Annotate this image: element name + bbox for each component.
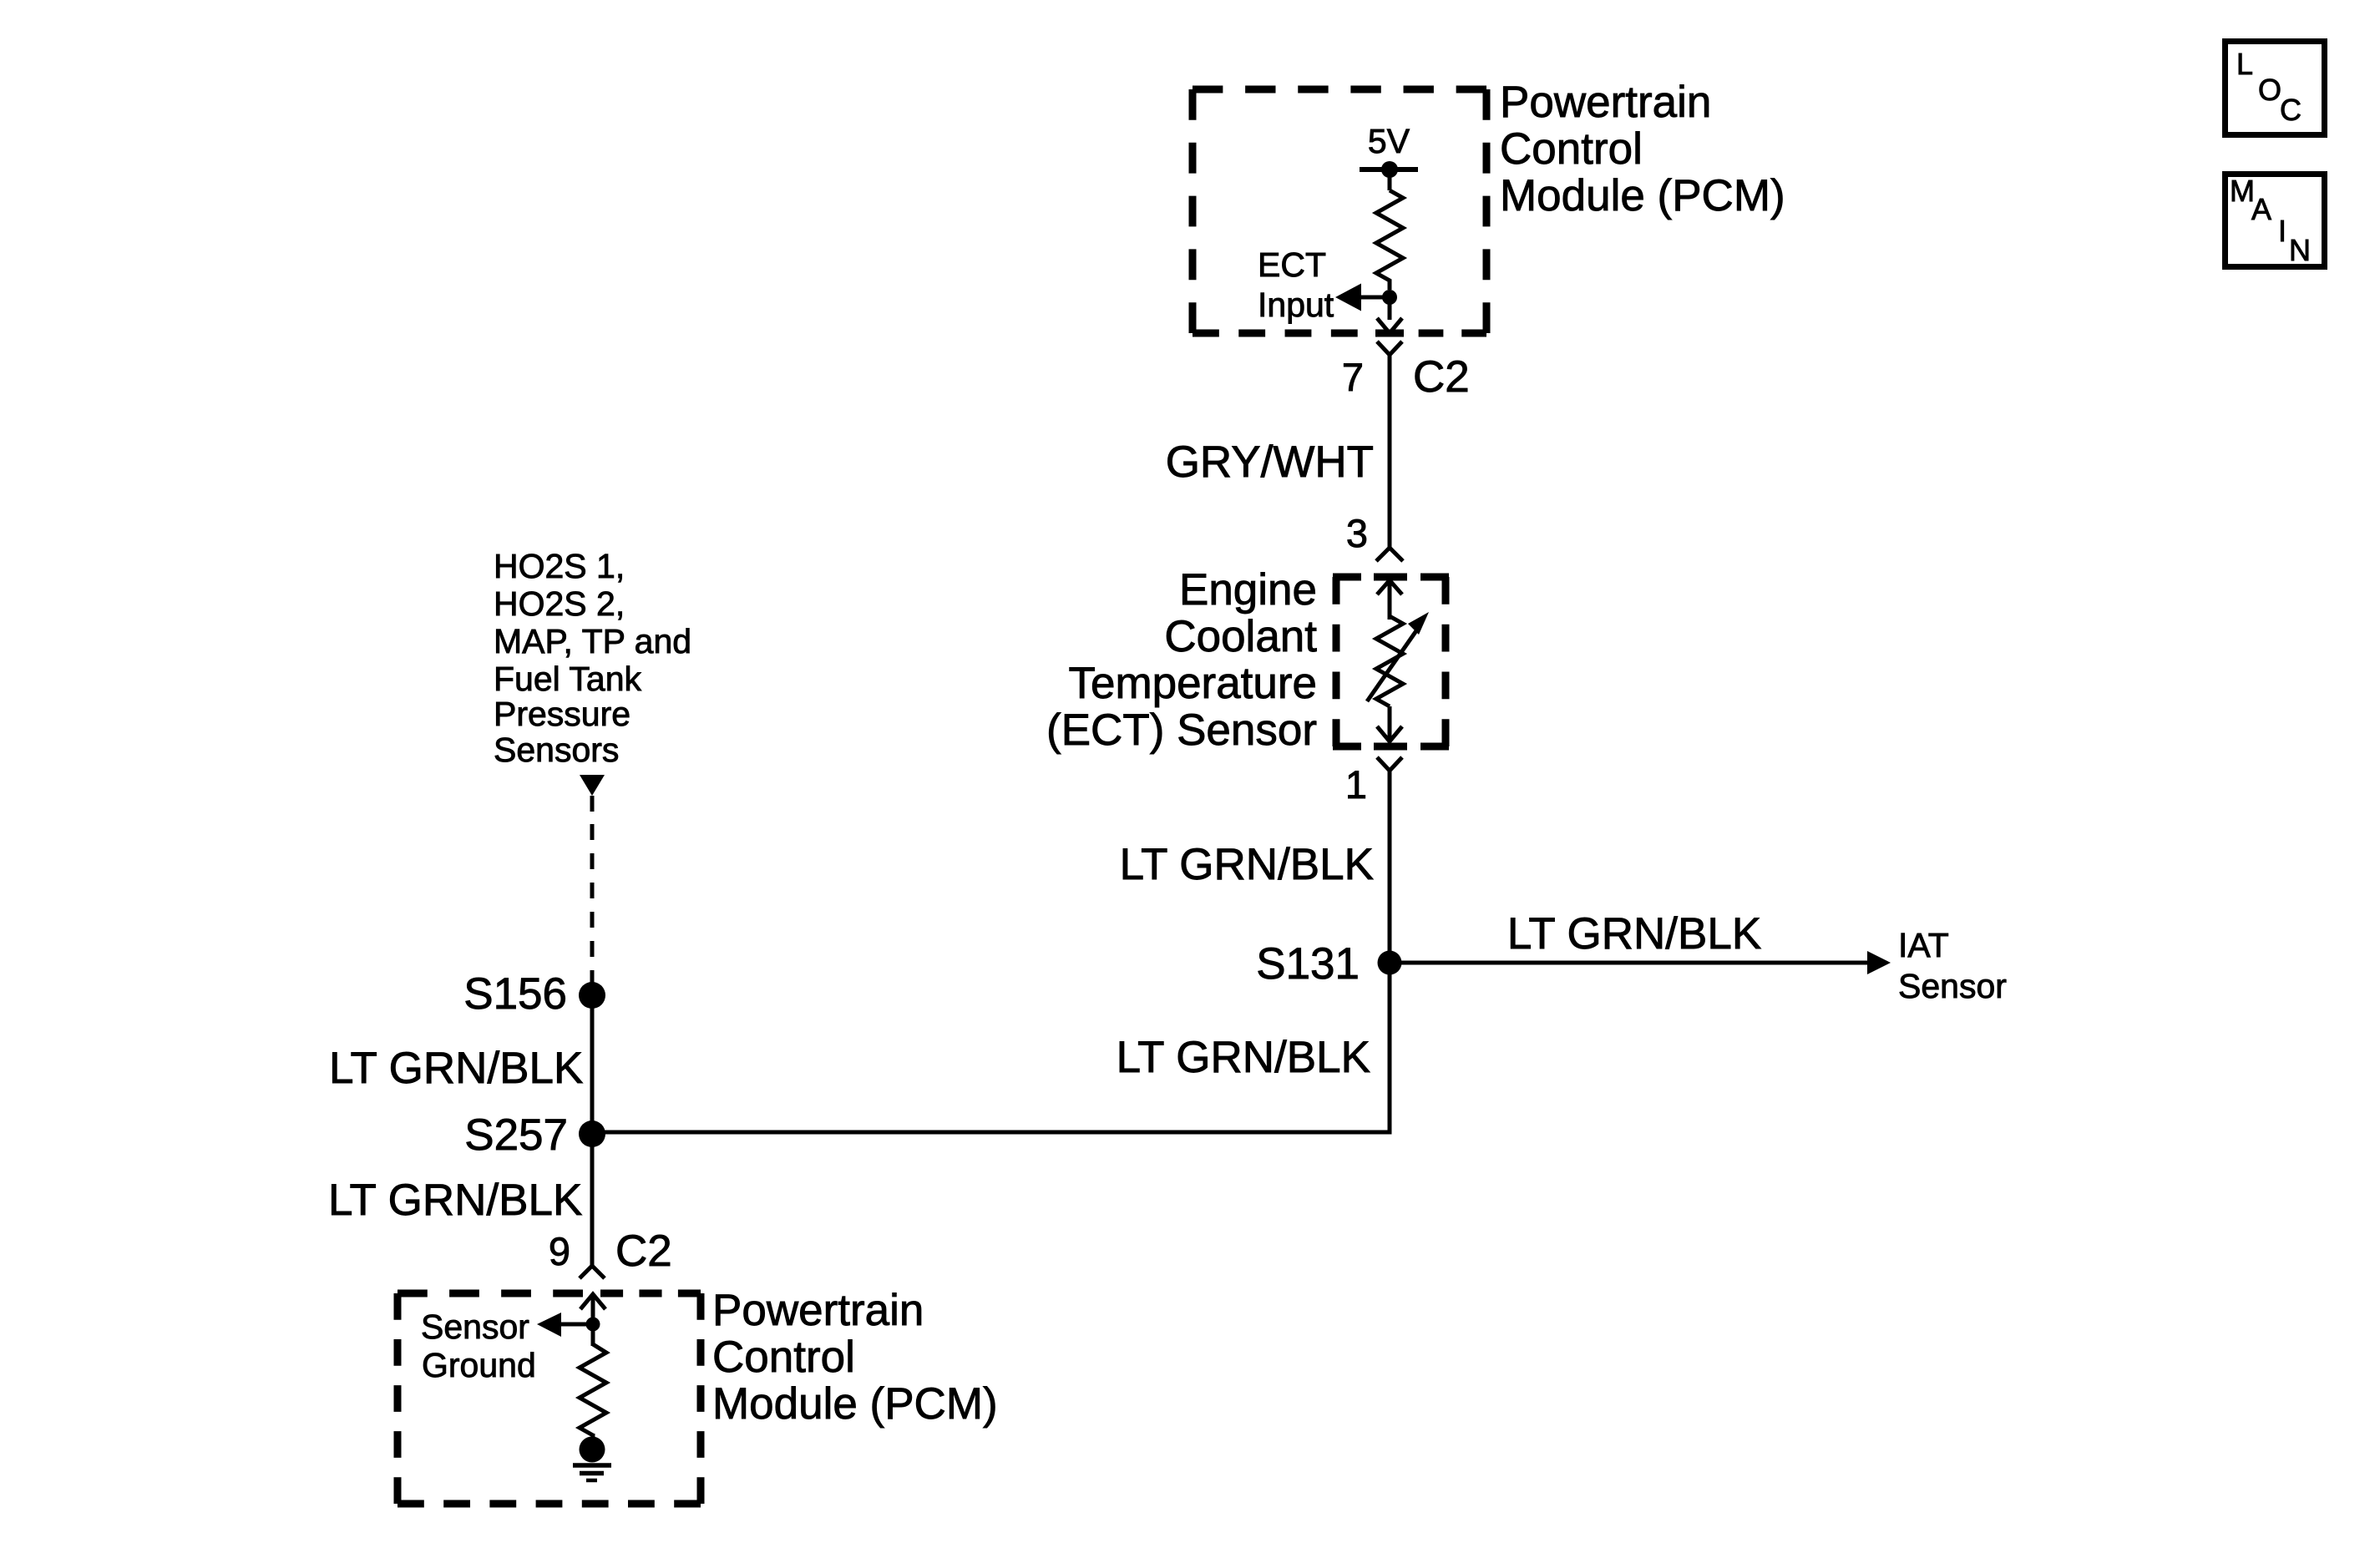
svg-text:5V: 5V bbox=[1368, 122, 1410, 160]
svg-text:Sensors: Sensors bbox=[494, 731, 619, 769]
PCM bottom box: top border right part bbox=[600, 1290, 701, 1297]
ECT sensor box (dashed outline) bbox=[1333, 577, 1449, 746]
wire S257 to S131 horizontal bbox=[590, 1131, 1392, 1135]
ECT box: bottom border dash 1 bbox=[1333, 743, 1361, 751]
resistor (PCM internal pull-up) bbox=[1376, 190, 1403, 290]
PCM top box: top border bbox=[1193, 86, 1486, 94]
svg-text:HO2S 1,: HO2S 1, bbox=[494, 547, 625, 585]
dashed wire to other sensors bbox=[590, 824, 595, 984]
ECT box: right border bbox=[1442, 577, 1450, 746]
svg-text:Control: Control bbox=[1500, 124, 1643, 174]
svg-text:S156: S156 bbox=[463, 969, 567, 1019]
svg-text:Pressure: Pressure bbox=[494, 695, 630, 733]
svg-text:Coolant: Coolant bbox=[1164, 612, 1317, 661]
svg-text:S257: S257 bbox=[464, 1110, 568, 1160]
svg-text:Module (PCM): Module (PCM) bbox=[712, 1379, 998, 1429]
junction dot sensor ground node bbox=[586, 1318, 600, 1332]
svg-text:HO2S 2,: HO2S 2, bbox=[494, 584, 625, 623]
wire LT GRN/BLK upper bbox=[1388, 771, 1392, 963]
PCM bottom box: top border left part bbox=[398, 1290, 583, 1297]
svg-text:N: N bbox=[2289, 233, 2311, 267]
connector C2 pin 9 symbol bbox=[580, 1266, 605, 1278]
svg-text:LT GRN/BLK: LT GRN/BLK bbox=[1507, 909, 1761, 959]
ground symbol bbox=[573, 1437, 611, 1481]
svg-text:Sensor: Sensor bbox=[421, 1308, 529, 1346]
wire to IAT sensor bbox=[1390, 961, 1869, 965]
junction dot at 5V node bbox=[1381, 161, 1398, 178]
connector chevron below ECT sensor (pin 1) bbox=[1377, 757, 1402, 771]
ECT box: top border dash 3 bbox=[1420, 574, 1449, 581]
svg-text:9: 9 bbox=[549, 1229, 570, 1273]
wire resistor to pin 7 bbox=[1388, 294, 1392, 320]
junction dot at ECT input node bbox=[1382, 290, 1397, 305]
svg-text:Powertrain: Powertrain bbox=[712, 1286, 924, 1335]
arrow down at PCM box exit bbox=[1377, 318, 1402, 333]
wire ECT inner bottom bbox=[1388, 706, 1392, 741]
ECT box: bottom border dash 3 bbox=[1420, 743, 1449, 751]
ECT Input arrow (points left) bbox=[1335, 284, 1361, 311]
PCM top box: bottom border right part bbox=[1375, 330, 1486, 337]
svg-text:A: A bbox=[2251, 192, 2271, 226]
wire ECT inner top bbox=[1388, 580, 1392, 620]
svg-text:GRY/WHT: GRY/WHT bbox=[1166, 438, 1374, 487]
svg-text:LT GRN/BLK: LT GRN/BLK bbox=[1120, 840, 1374, 889]
thermistor zigzag (ECT sensing element) bbox=[1376, 616, 1403, 706]
svg-text:IAT: IAT bbox=[1898, 926, 1949, 964]
connector chevron above ECT sensor bbox=[1376, 548, 1403, 561]
arrow up at PCM box entry bbox=[580, 1294, 605, 1309]
ECT box: top border dash 1 bbox=[1333, 574, 1361, 581]
svg-text:3: 3 bbox=[1346, 511, 1368, 555]
PCM bottom box: right border bbox=[697, 1293, 705, 1504]
arrow down at ECT box exit bbox=[1377, 726, 1402, 741]
svg-text:Module (PCM): Module (PCM) bbox=[1500, 171, 1785, 220]
svg-text:C2: C2 bbox=[615, 1227, 672, 1276]
svg-text:C: C bbox=[2280, 93, 2302, 127]
arrow down to sensors branch bbox=[580, 775, 605, 796]
wire into PCM ground bbox=[591, 1294, 595, 1324]
Sensor Ground arrow (points left) bbox=[537, 1313, 561, 1337]
svg-text:Input: Input bbox=[1258, 286, 1334, 324]
LOC reference box bbox=[2226, 42, 2325, 135]
PCM top box (Powertrain Control Module dashed outline) bbox=[1193, 89, 1486, 333]
PCM bottom box: bottom border bbox=[398, 1500, 701, 1508]
svg-text:7: 7 bbox=[1342, 355, 1364, 399]
5V supply bar bbox=[1360, 167, 1418, 172]
splice S131 bbox=[1378, 951, 1402, 975]
wire to ground resistor bbox=[591, 1324, 595, 1346]
ECT box: bottom border dash 2 bbox=[1374, 743, 1407, 751]
resistor (PCM internal to ground) bbox=[580, 1344, 606, 1435]
svg-text:1: 1 bbox=[1345, 762, 1367, 807]
wire to ECT Input arrow bbox=[1361, 296, 1391, 300]
svg-text:LT GRN/BLK: LT GRN/BLK bbox=[329, 1044, 583, 1093]
svg-text:S131: S131 bbox=[1256, 939, 1360, 989]
wire GRY/WHT vertical bbox=[1388, 355, 1392, 548]
thermistor diagonal arrow bbox=[1367, 630, 1417, 701]
MAIN reference box bbox=[2226, 174, 2325, 267]
svg-text:C2: C2 bbox=[1413, 352, 1470, 402]
wire to ground symbol bbox=[591, 1434, 595, 1439]
PCM bottom box (Powertrain Control Module dashed outline) bbox=[398, 1293, 701, 1504]
svg-text:ECT: ECT bbox=[1258, 245, 1326, 284]
svg-text:Ground: Ground bbox=[422, 1346, 536, 1384]
arrow tail stub bbox=[590, 796, 595, 812]
svg-text:Control: Control bbox=[712, 1333, 855, 1382]
arrow up inside ECT box bbox=[1377, 580, 1402, 594]
splice S156 bbox=[579, 982, 605, 1009]
wire S257 to pin 9 bbox=[590, 1134, 595, 1265]
svg-text:L: L bbox=[2236, 47, 2253, 81]
wire to Sensor Ground arrow bbox=[561, 1323, 595, 1327]
wire 5V to resistor bbox=[1388, 169, 1392, 190]
svg-text:LT GRN/BLK: LT GRN/BLK bbox=[328, 1176, 582, 1225]
arrow to IAT sensor (points right) bbox=[1867, 951, 1891, 974]
PCM top box: left border bbox=[1189, 89, 1197, 333]
wire S156 to S257 bbox=[590, 995, 595, 1134]
svg-text:LT GRN/BLK: LT GRN/BLK bbox=[1117, 1033, 1370, 1082]
svg-text:MAP, TP and: MAP, TP and bbox=[494, 622, 691, 660]
svg-text:Temperature: Temperature bbox=[1068, 659, 1317, 708]
connector C2 pin 7 symbol bbox=[1377, 341, 1402, 355]
svg-text:Engine: Engine bbox=[1179, 565, 1317, 615]
svg-text:Powertrain: Powertrain bbox=[1500, 78, 1711, 127]
PCM top box: bottom border left part bbox=[1193, 330, 1404, 337]
svg-text:Sensor: Sensor bbox=[1898, 967, 2007, 1005]
wire LT GRN/BLK lower bbox=[1388, 963, 1392, 1132]
ECT box: top border dash 2 bbox=[1374, 574, 1407, 581]
svg-text:Fuel Tank: Fuel Tank bbox=[494, 660, 642, 698]
svg-text:O: O bbox=[2258, 73, 2281, 107]
PCM bottom box: left border bbox=[394, 1293, 402, 1504]
svg-text:I: I bbox=[2278, 214, 2286, 248]
splice S257 bbox=[579, 1120, 605, 1147]
ECT box: left border bbox=[1333, 577, 1340, 746]
svg-text:(ECT) Sensor: (ECT) Sensor bbox=[1046, 706, 1317, 755]
PCM top box: right border bbox=[1483, 89, 1491, 333]
